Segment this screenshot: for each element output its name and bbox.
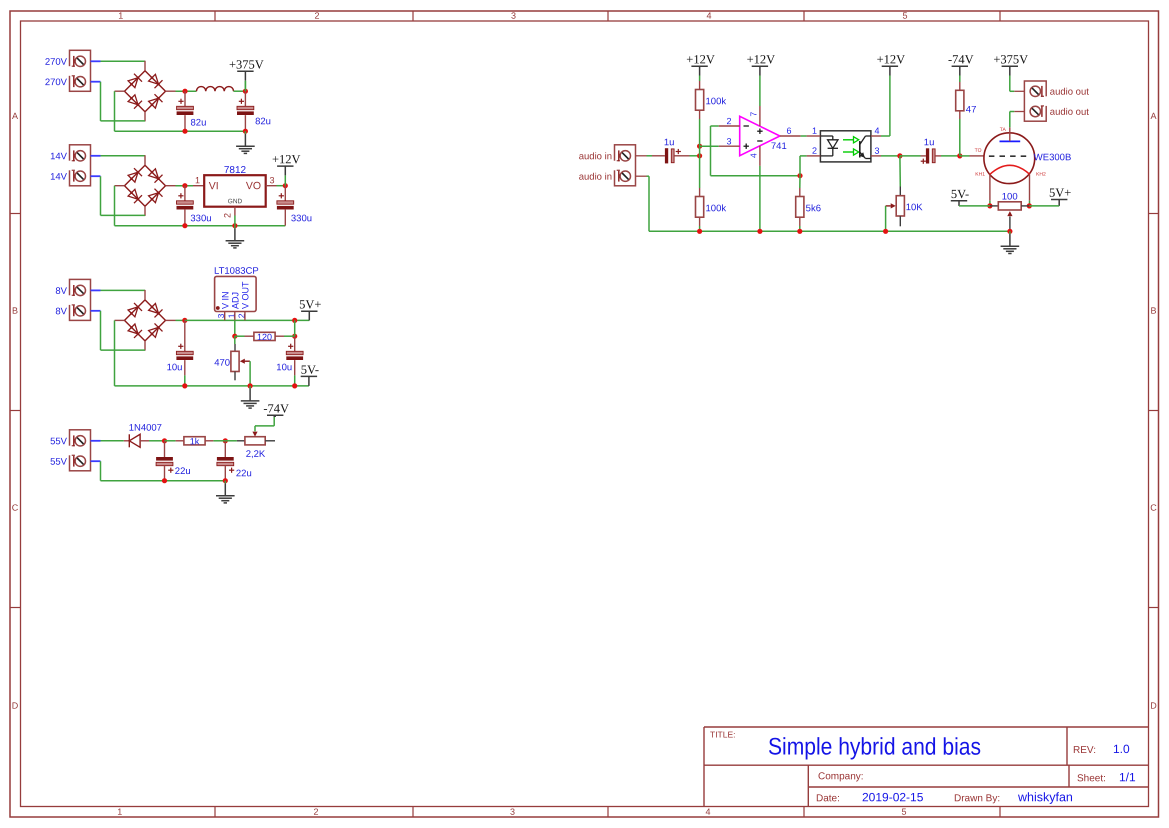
- svg-text:8V: 8V: [55, 286, 67, 297]
- svg-text:D: D: [12, 701, 19, 711]
- svg-text:470: 470: [214, 358, 230, 369]
- svg-text:audio out: audio out: [1050, 107, 1089, 118]
- svg-text:1u: 1u: [924, 137, 935, 148]
- svg-text:3: 3: [874, 146, 879, 156]
- svg-text:Date:: Date:: [816, 793, 840, 804]
- svg-text:VI: VI: [209, 180, 219, 192]
- svg-text:2: 2: [812, 146, 817, 156]
- svg-text:WE300B: WE300B: [1034, 152, 1072, 163]
- svg-text:330u: 330u: [190, 213, 211, 224]
- svg-text:4: 4: [874, 126, 879, 136]
- svg-text:10u: 10u: [276, 362, 292, 373]
- svg-text:REV:: REV:: [1073, 745, 1096, 756]
- svg-text:55V: 55V: [50, 457, 68, 468]
- svg-text:5V-: 5V-: [301, 363, 319, 377]
- svg-text:2: 2: [313, 807, 318, 817]
- svg-text:3: 3: [510, 807, 515, 817]
- svg-text:22u: 22u: [236, 468, 252, 479]
- svg-text:C: C: [1150, 503, 1157, 513]
- svg-text:1: 1: [118, 11, 123, 21]
- svg-text:1N4007: 1N4007: [129, 423, 162, 434]
- svg-text:1k: 1k: [190, 436, 200, 446]
- svg-text:2: 2: [726, 116, 731, 126]
- svg-text:Sheet:: Sheet:: [1077, 773, 1106, 784]
- svg-text:100: 100: [1002, 191, 1018, 202]
- svg-text:1: 1: [117, 807, 122, 817]
- svg-text:5V+: 5V+: [299, 297, 321, 311]
- svg-text:2,2K: 2,2K: [246, 449, 266, 460]
- svg-text:1u: 1u: [664, 137, 675, 148]
- svg-text:5k6: 5k6: [806, 203, 821, 214]
- svg-text:TO: TO: [975, 148, 982, 154]
- svg-text:KH1: KH1: [975, 172, 985, 178]
- svg-text:whiskyfan: whiskyfan: [1017, 790, 1073, 804]
- svg-text:+12V: +12V: [747, 52, 776, 66]
- svg-text:-74V: -74V: [948, 52, 974, 66]
- svg-text:120: 120: [257, 332, 272, 342]
- svg-text:5V-: 5V-: [951, 187, 969, 201]
- svg-text:TITLE:: TITLE:: [710, 730, 736, 740]
- svg-text:V OUT: V OUT: [241, 281, 251, 309]
- svg-text:B: B: [1150, 306, 1156, 316]
- svg-text:270V: 270V: [45, 57, 68, 68]
- svg-text:5V+: 5V+: [1049, 186, 1071, 200]
- svg-text:VO: VO: [246, 180, 261, 192]
- svg-text:4: 4: [706, 11, 711, 21]
- svg-text:100k: 100k: [705, 203, 726, 214]
- svg-text:Drawn By:: Drawn By:: [954, 793, 1000, 804]
- svg-text:-74V: -74V: [263, 401, 289, 415]
- svg-text:47: 47: [966, 105, 977, 116]
- svg-text:KH2: KH2: [1036, 172, 1046, 178]
- svg-text:1.0: 1.0: [1113, 742, 1130, 756]
- svg-text:D: D: [1150, 701, 1157, 711]
- svg-text:ADJ: ADJ: [230, 292, 240, 309]
- svg-text:audio in: audio in: [579, 172, 612, 183]
- svg-text:+375V: +375V: [229, 57, 264, 71]
- svg-text:A: A: [12, 111, 18, 121]
- svg-text:audio in: audio in: [579, 151, 612, 162]
- svg-text:+12V: +12V: [877, 52, 906, 66]
- svg-text:+12V: +12V: [272, 152, 301, 166]
- svg-text:330u: 330u: [291, 213, 312, 224]
- svg-text:4: 4: [749, 153, 759, 158]
- svg-text:B: B: [12, 306, 18, 316]
- svg-text:4: 4: [705, 807, 710, 817]
- svg-text:2: 2: [314, 11, 319, 21]
- svg-text:A: A: [1150, 111, 1156, 121]
- svg-text:+375V: +375V: [993, 52, 1028, 66]
- svg-text:100k: 100k: [705, 96, 726, 107]
- svg-text:5: 5: [901, 807, 906, 817]
- svg-text:14V: 14V: [50, 172, 68, 183]
- svg-text:1: 1: [812, 126, 817, 136]
- svg-text:GND: GND: [228, 198, 243, 205]
- svg-text:Simple hybrid and bias: Simple hybrid and bias: [768, 734, 981, 761]
- svg-text:Company:: Company:: [818, 771, 864, 782]
- svg-text:LT1083CP: LT1083CP: [214, 266, 259, 277]
- svg-text:audio out: audio out: [1050, 87, 1089, 98]
- svg-text:10u: 10u: [167, 362, 183, 373]
- svg-text:+12V: +12V: [686, 52, 715, 66]
- svg-text:741: 741: [771, 141, 787, 152]
- svg-text:22u: 22u: [175, 466, 191, 477]
- svg-text:55V: 55V: [50, 436, 68, 447]
- svg-text:3: 3: [269, 175, 274, 185]
- svg-text:V IN: V IN: [220, 291, 230, 309]
- svg-text:14V: 14V: [50, 151, 68, 162]
- svg-text:3: 3: [511, 11, 516, 21]
- svg-text:5: 5: [902, 11, 907, 21]
- svg-text:2: 2: [223, 213, 233, 218]
- svg-text:8V: 8V: [55, 306, 67, 317]
- svg-text:10K: 10K: [906, 202, 924, 213]
- svg-text:TA: TA: [1000, 127, 1007, 133]
- svg-text:270V: 270V: [45, 77, 68, 88]
- svg-text:2019-02-15: 2019-02-15: [862, 790, 924, 804]
- svg-text:6: 6: [786, 126, 791, 136]
- svg-text:3: 3: [726, 136, 731, 146]
- svg-text:1/1: 1/1: [1119, 770, 1136, 784]
- svg-text:1: 1: [195, 175, 200, 185]
- svg-text:82u: 82u: [255, 116, 271, 127]
- svg-text:82u: 82u: [190, 118, 206, 129]
- svg-text:7812: 7812: [224, 165, 247, 176]
- svg-text:C: C: [12, 503, 19, 513]
- svg-text:7: 7: [749, 112, 759, 117]
